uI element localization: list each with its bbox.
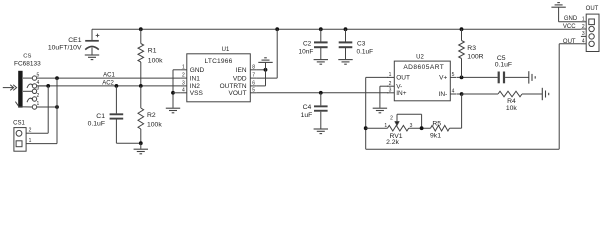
svg-text:5: 5 (37, 72, 40, 78)
svg-text:R1: R1 (148, 48, 157, 55)
svg-text:7: 7 (252, 73, 255, 79)
svg-text:R5: R5 (432, 120, 441, 127)
svg-text:4: 4 (582, 39, 585, 45)
svg-text:2: 2 (582, 24, 585, 30)
svg-text:IN1: IN1 (190, 75, 201, 82)
svg-text:U1: U1 (222, 47, 230, 53)
svg-text:1: 1 (384, 123, 387, 129)
svg-text:10uFT/10V: 10uFT/10V (48, 45, 82, 52)
svg-text:AD8605ART: AD8605ART (403, 64, 444, 71)
svg-text:VCC: VCC (563, 24, 576, 30)
svg-text:2: 2 (29, 127, 32, 133)
svg-text:IEN: IEN (236, 67, 247, 74)
svg-text:3: 3 (182, 81, 185, 87)
svg-text:2.2k: 2.2k (386, 139, 399, 146)
svg-text:3: 3 (410, 123, 413, 129)
svg-text:9k1: 9k1 (430, 133, 441, 140)
svg-text:3: 3 (582, 31, 585, 37)
svg-text:3: 3 (389, 87, 392, 93)
svg-text:4: 4 (452, 89, 455, 95)
svg-text:VOUT: VOUT (229, 90, 247, 97)
svg-text:C3: C3 (357, 40, 366, 47)
svg-text:10k: 10k (506, 105, 518, 112)
svg-text:8: 8 (252, 64, 255, 70)
svg-text:5: 5 (452, 72, 455, 78)
svg-text:FC68133: FC68133 (14, 61, 41, 68)
svg-text:C2: C2 (303, 40, 312, 47)
svg-text:LTC1966: LTC1966 (204, 58, 232, 65)
svg-text:CE1: CE1 (68, 37, 81, 44)
svg-text:100k: 100k (147, 122, 162, 129)
svg-text:IN-: IN- (439, 91, 448, 98)
svg-text:OUT: OUT (563, 39, 576, 45)
svg-text:5: 5 (252, 87, 255, 93)
svg-text:1: 1 (29, 138, 32, 144)
svg-text:VSS: VSS (190, 90, 204, 97)
svg-text:V+: V+ (439, 75, 447, 82)
svg-text:4: 4 (182, 87, 185, 93)
svg-text:0.1uF: 0.1uF (495, 61, 512, 68)
svg-text:2: 2 (37, 93, 40, 99)
svg-text:C4: C4 (303, 104, 312, 111)
svg-text:AC1: AC1 (103, 73, 115, 79)
svg-text:R2: R2 (147, 112, 156, 119)
svg-text:OUT: OUT (396, 75, 410, 82)
svg-text:10nF: 10nF (298, 48, 313, 55)
svg-text:2: 2 (390, 116, 393, 122)
svg-text:AC2: AC2 (102, 80, 114, 86)
svg-text:1: 1 (582, 17, 585, 23)
svg-text:2: 2 (182, 73, 185, 79)
svg-text:GND: GND (564, 16, 578, 22)
svg-text:IN+: IN+ (396, 90, 407, 97)
svg-text:R3: R3 (467, 45, 476, 52)
svg-text:100R: 100R (467, 53, 483, 60)
svg-text:1: 1 (389, 72, 392, 78)
svg-text:OUT: OUT (586, 6, 599, 12)
svg-text:CS1: CS1 (13, 121, 25, 127)
svg-text:1uF: 1uF (301, 112, 313, 119)
svg-text:0.1uF: 0.1uF (357, 48, 374, 55)
svg-text:U2: U2 (416, 55, 424, 61)
svg-text:1: 1 (37, 101, 40, 107)
svg-text:1: 1 (182, 64, 185, 70)
svg-text:GND: GND (190, 67, 205, 74)
svg-text:2: 2 (389, 81, 392, 87)
svg-text:6: 6 (252, 81, 255, 87)
svg-text:C1: C1 (96, 113, 105, 120)
svg-text:CS: CS (23, 54, 31, 60)
svg-text:100k: 100k (148, 58, 163, 65)
svg-text:VDD: VDD (233, 75, 247, 82)
svg-text:0.1uF: 0.1uF (88, 121, 105, 128)
